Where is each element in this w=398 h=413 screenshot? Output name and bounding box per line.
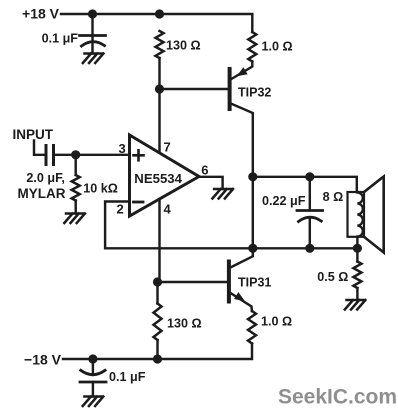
wire pin 2 feedback — [105, 202, 357, 249]
transistor Q2 TIP31 collector wire — [230, 248, 253, 267]
node junction R4 / TIP31 base — [153, 277, 162, 286]
svg-text:130 Ω: 130 Ω — [166, 38, 201, 52]
wire speaker network top — [253, 177, 357, 192]
transistor Q2 TIP31 bar — [227, 262, 231, 302]
wire R1 bottom to op-amp pin 7 — [158, 58, 160, 152]
transistor Q2 TIP31 emitter arrow — [234, 292, 245, 301]
svg-text:SeekIC.com: SeekIC.com — [278, 386, 397, 409]
capacitor C4 0.22uF straight plate — [297, 209, 323, 212]
resistor R5 1.0 ohm (bottom) — [248, 311, 256, 344]
wire 10k top lead — [74, 155, 76, 175]
svg-text:8 Ω: 8 Ω — [323, 190, 344, 204]
svg-text:3: 3 — [119, 141, 126, 156]
resistor R4 130 ohm (bottom) — [154, 304, 162, 341]
svg-text:MYLAR: MYLAR — [18, 186, 66, 201]
svg-text:2: 2 — [117, 201, 124, 216]
node junction bottom rail at R4 — [153, 354, 162, 363]
node 0.5 ohm top junction — [353, 244, 362, 253]
svg-text:TIP31: TIP31 — [238, 276, 271, 290]
node 0.22uF top junction — [305, 172, 314, 181]
node 0.22uF bottom junction — [305, 244, 314, 253]
resistor R6 0.5 ohm — [353, 262, 361, 289]
inductor L1 voice coil bumps — [357, 192, 363, 236]
ground at op-amp output — [212, 189, 233, 199]
wire C3 bottom lead — [92, 382, 94, 397]
node junction bottom rail at C3 — [88, 354, 97, 363]
svg-text:+18 V: +18 V — [22, 6, 60, 22]
transistor Q1 TIP32 emitter wire — [231, 62, 253, 80]
wire C4 bottom lead — [309, 219, 311, 248]
wire C3 lead from rail — [92, 359, 94, 375]
transistor Q2 TIP31 emitter wire — [231, 293, 252, 311]
resistor R1 130 ohm (top) — [156, 31, 164, 58]
wire pin 4 down — [158, 199, 160, 282]
capacitor C4 0.22uF curved plate — [299, 217, 322, 221]
wire C4 top lead — [309, 177, 311, 210]
svg-text:0.1 μF: 0.1 μF — [109, 370, 146, 384]
svg-text:0.5 Ω: 0.5 Ω — [317, 270, 348, 284]
svg-text:10 kΩ: 10 kΩ — [83, 182, 118, 196]
node junction R1 / TIP32 base — [155, 84, 164, 93]
wire +18V rail — [61, 14, 252, 32]
svg-text:4: 4 — [164, 202, 172, 217]
capacitor C1 0.1uF straight plate — [80, 34, 106, 37]
wire output bus vertical — [252, 177, 254, 249]
op-amp plus sign — [134, 150, 144, 160]
speaker frame box — [348, 192, 365, 237]
wire C1 lead from rail — [91, 14, 93, 54]
ground below R6 — [345, 300, 366, 310]
wire R6 bottom lead — [356, 288, 358, 300]
ground below C1 — [83, 54, 104, 64]
ground below C3 — [83, 397, 104, 407]
capacitor C1 0.1uF curved plate — [82, 42, 105, 46]
wire R4 top lead — [156, 282, 158, 304]
wire input stub — [34, 141, 44, 155]
transistor Q1 TIP32 collector wire — [230, 103, 253, 177]
svg-text:2.0 μF,: 2.0 μF, — [26, 171, 65, 185]
svg-text:1.0 Ω: 1.0 Ω — [261, 315, 292, 329]
wire TIP31 base — [158, 281, 228, 283]
svg-text:0.22 μF: 0.22 μF — [262, 194, 306, 208]
svg-text:TIP32: TIP32 — [238, 86, 271, 100]
transistor Q1 TIP32 bar — [228, 69, 232, 109]
wire input to op-amp pin 3 — [54, 154, 130, 156]
wire op-amp output pin 6 — [199, 177, 223, 189]
svg-text:7: 7 — [164, 140, 171, 155]
svg-text:−18 V: −18 V — [24, 352, 62, 368]
svg-text:6: 6 — [201, 162, 208, 177]
ground below R3 — [64, 214, 85, 224]
resistor R3 10 kohm — [72, 175, 80, 201]
capacitor C3 0.1uF straight plate — [80, 381, 106, 384]
capacitor C2 2.0uF plates — [46, 146, 54, 165]
node output bus top junction — [248, 172, 257, 181]
svg-text:0.1 μF: 0.1 μF — [42, 32, 79, 46]
node junction top rail at C1 — [88, 9, 97, 18]
wire -18V rail — [63, 344, 252, 360]
transistor Q1 TIP32 emitter arrow — [237, 67, 248, 76]
wire R4 bottom lead — [156, 340, 158, 359]
capacitor C3 0.1uF curved plate — [81, 370, 105, 374]
node junction top rail at R1 — [155, 9, 164, 18]
wire coil bottom lead — [356, 237, 358, 249]
op-amp U1 NE5534 triangle — [130, 135, 200, 216]
wire TIP32 base — [160, 88, 228, 90]
resistor R2 1.0 ohm (top) — [248, 32, 256, 62]
speaker cone — [364, 177, 384, 253]
node input junction — [71, 150, 80, 159]
svg-text:130 Ω: 130 Ω — [167, 317, 202, 331]
svg-text:NE5534: NE5534 — [134, 171, 182, 186]
wire 10k bottom lead — [74, 201, 76, 214]
wire R6 top lead — [356, 248, 358, 261]
svg-text:1.0 Ω: 1.0 Ω — [262, 40, 293, 54]
node bus bottom junction — [248, 244, 257, 253]
op-amp minus sign — [134, 201, 144, 204]
